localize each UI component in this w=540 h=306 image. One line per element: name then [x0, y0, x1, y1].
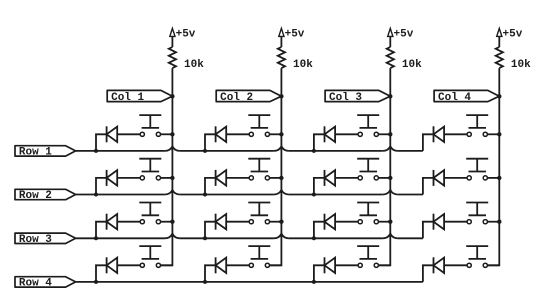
wire supply to resistor col 2 [280, 36, 282, 47]
pushbutton row2-col3 stem [367, 159, 369, 172]
pushbutton row2-col3 right contact [374, 176, 378, 180]
pushbutton row3-col4 cap [466, 202, 488, 204]
diode row3-col4 triangle [434, 214, 445, 229]
diode row2-col2 cathode bar [215, 170, 217, 186]
diode row4-col3 triangle [325, 258, 336, 273]
diode row4-col4 cathode bar [433, 257, 435, 273]
wire stub row2-col2 [205, 178, 216, 195]
pushbutton row2-col3 cap [357, 158, 379, 160]
diode row1-col1 cathode bar [106, 126, 108, 142]
wire diode to switch row3-col4 [444, 221, 467, 223]
wire switch to column row2-col2 [270, 177, 282, 179]
wire stub row4-col2 [205, 265, 216, 282]
wire stub row2-col3 [314, 178, 325, 195]
wire diode to switch row1-col4 [444, 133, 467, 135]
diode row1-col3 cathode bar [324, 126, 326, 142]
diode row3-col4 cathode bar [433, 214, 435, 230]
svg-text:10k: 10k [402, 59, 422, 71]
junction row1 stub col3 [312, 149, 316, 153]
net label flag Col 1 [107, 90, 172, 101]
row 2 wire [76, 194, 165, 196]
resistor 10k col 4 [496, 47, 503, 68]
pushbutton row1-col2 right contact [265, 132, 269, 136]
wire diode to switch row4-col4 [444, 264, 467, 266]
junction row2 switch col1 [170, 176, 174, 180]
pushbutton row4-col3 actuator bar [360, 258, 378, 260]
pushbutton row3-col3 actuator bar [360, 214, 378, 216]
junction col 2 flag [279, 94, 283, 98]
svg-text:Col 1: Col 1 [111, 92, 144, 104]
wire stub row1-col4 [423, 134, 434, 151]
diode row4-col1 triangle [107, 258, 118, 273]
pushbutton row1-col4 actuator bar [469, 127, 487, 129]
wire diode to switch row4-col3 [335, 264, 358, 266]
wire diode to switch row2-col1 [117, 177, 140, 179]
diode row3-col2 cathode bar [215, 214, 217, 230]
junction row1 stub col1 [94, 149, 98, 153]
pushbutton row3-col1 left contact [140, 220, 144, 224]
junction row3 switch col3 [388, 220, 392, 224]
svg-text:+5v: +5v [176, 29, 196, 41]
wire stub row2-col1 [96, 178, 107, 195]
pushbutton row4-col2 actuator bar [251, 258, 269, 260]
net label flag Row 4 [15, 277, 76, 287]
pushbutton row4-col3 cap [357, 245, 379, 247]
diode row3-col1 triangle [107, 214, 118, 229]
junction col 3 flag [388, 94, 392, 98]
resistor 10k col 2 [278, 47, 285, 68]
pushbutton row4-col3 right contact [374, 263, 378, 267]
wire diode to switch row2-col3 [335, 177, 358, 179]
diode row1-col3 triangle [325, 127, 336, 142]
pushbutton row3-col4 stem [476, 203, 478, 216]
junction col 4 flag [497, 94, 501, 98]
junction row3 switch col2 [279, 220, 283, 224]
pushbutton row4-col3 left contact [358, 263, 362, 267]
pushbutton row1-col2 left contact [249, 132, 253, 136]
junction row1 stub col2 [203, 149, 207, 153]
wire stub row1-col2 [205, 134, 216, 151]
svg-text:Col 3: Col 3 [329, 92, 362, 104]
pushbutton row2-col4 stem [476, 159, 478, 172]
column wire col 4 [487, 68, 499, 265]
wire switch to column row2-col3 [378, 177, 390, 179]
wire supply to resistor col 1 [171, 36, 173, 47]
wire switch to column row4-col1 [161, 264, 173, 266]
diode row1-col2 cathode bar [215, 126, 217, 142]
row 1 wire [76, 150, 165, 152]
wire hop row 2 over col 1 [165, 190, 180, 195]
pushbutton row2-col1 stem [149, 159, 151, 172]
diode row4-col2 cathode bar [215, 257, 217, 273]
pushbutton row4-col2 cap [248, 245, 270, 247]
diode row2-col4 cathode bar [433, 170, 435, 186]
pushbutton row2-col1 right contact [156, 176, 160, 180]
diode row2-col4 triangle [434, 170, 445, 185]
pushbutton row3-col3 stem [367, 203, 369, 216]
junction row3 stub col1 [94, 236, 98, 240]
pushbutton row4-col4 right contact [483, 263, 487, 267]
junction row1 switch col3 [388, 132, 392, 136]
wire switch to column row3-col3 [378, 221, 390, 223]
diode row2-col3 triangle [325, 170, 336, 185]
diode row4-col4 triangle [434, 258, 445, 273]
pushbutton row2-col3 left contact [358, 176, 362, 180]
pushbutton row1-col3 actuator bar [360, 127, 378, 129]
row 3 wire [76, 237, 165, 239]
wire hop row 1 over col 3 [383, 146, 398, 151]
pushbutton row4-col4 cap [466, 245, 488, 247]
wire diode to switch row2-col4 [444, 177, 467, 179]
wire stub row3-col1 [96, 222, 107, 239]
pushbutton row1-col1 actuator bar [142, 127, 160, 129]
wire diode to switch row2-col2 [226, 177, 249, 179]
pushbutton row2-col3 actuator bar [360, 171, 378, 173]
junction row4 stub col1 [94, 280, 98, 284]
pushbutton row4-col2 stem [258, 246, 260, 259]
pushbutton row4-col1 stem [149, 246, 151, 259]
wire diode to switch row1-col3 [335, 133, 358, 135]
wire switch to column row4-col2 [270, 264, 282, 266]
wire stub row1-col1 [96, 134, 107, 151]
+5V supply symbol col 4 [497, 28, 502, 36]
wire diode to switch row1-col1 [117, 133, 140, 135]
net label flag Row 3 [15, 233, 76, 243]
pushbutton row2-col4 actuator bar [469, 171, 487, 173]
pushbutton row4-col4 stem [476, 246, 478, 259]
pushbutton row3-col2 actuator bar [251, 214, 269, 216]
wire stub row4-col3 [314, 265, 325, 282]
pushbutton row1-col4 right contact [483, 132, 487, 136]
svg-text:Row 1: Row 1 [19, 147, 52, 159]
wire diode to switch row3-col1 [117, 221, 140, 223]
column wire col 1 [161, 68, 173, 265]
wire switch to column row1-col4 [487, 133, 499, 135]
wire switch to column row1-col2 [270, 133, 282, 135]
svg-text:Col 4: Col 4 [438, 92, 471, 104]
diode row2-col3 cathode bar [324, 170, 326, 186]
pushbutton row1-col4 left contact [467, 132, 471, 136]
pushbutton row4-col1 right contact [156, 263, 160, 267]
wire stub row3-col3 [314, 222, 325, 239]
junction row2 switch col4 [497, 176, 501, 180]
pushbutton row3-col2 left contact [249, 220, 253, 224]
junction row4 stub col2 [203, 280, 207, 284]
junction row3 switch col4 [497, 220, 501, 224]
svg-text:Row 4: Row 4 [19, 278, 52, 290]
wire stub row3-col4 [423, 222, 434, 239]
wire switch to column row2-col1 [161, 177, 173, 179]
+5V supply symbol col 3 [388, 28, 393, 36]
wire diode to switch row4-col2 [226, 264, 249, 266]
diode row1-col4 triangle [434, 127, 445, 142]
svg-text:+5v: +5v [285, 29, 305, 41]
pushbutton row2-col1 cap [139, 158, 161, 160]
wire switch to column row3-col1 [161, 221, 173, 223]
wire stub row1-col3 [314, 134, 325, 151]
diode row4-col2 triangle [216, 258, 227, 273]
pushbutton row1-col2 stem [258, 115, 260, 128]
junction row3 stub col2 [203, 236, 207, 240]
net label flag Col 2 [216, 90, 281, 101]
pushbutton row2-col4 cap [466, 158, 488, 160]
pushbutton row1-col4 stem [476, 115, 478, 128]
pushbutton row3-col2 cap [248, 202, 270, 204]
wire switch to column row3-col4 [487, 221, 499, 223]
wire hop row 2 over col 2 [274, 190, 289, 195]
pushbutton row3-col1 actuator bar [142, 214, 160, 216]
wire hop row 3 over col 1 [165, 234, 180, 239]
column wire col 3 [378, 68, 390, 265]
junction row2 stub col3 [312, 193, 316, 197]
junction row4 stub col3 [312, 280, 316, 284]
wire stub row3-col2 [205, 222, 216, 239]
pushbutton row2-col2 stem [258, 159, 260, 172]
net label flag Col 4 [434, 90, 499, 101]
pushbutton row4-col4 left contact [467, 263, 471, 267]
pushbutton row3-col4 left contact [467, 220, 471, 224]
wire switch to column row4-col3 [378, 264, 390, 266]
svg-text:Col 2: Col 2 [220, 92, 253, 104]
junction row2 switch col2 [279, 176, 283, 180]
wire hop row 1 over col 1 [165, 146, 180, 151]
svg-text:Row 2: Row 2 [19, 190, 52, 202]
pushbutton row1-col1 left contact [140, 132, 144, 136]
junction row1 switch col2 [279, 132, 283, 136]
svg-text:10k: 10k [511, 59, 531, 71]
diode row3-col3 cathode bar [324, 214, 326, 230]
pushbutton row1-col1 cap [139, 114, 161, 116]
pushbutton row4-col2 left contact [249, 263, 253, 267]
pushbutton row1-col1 right contact [156, 132, 160, 136]
diode row3-col3 triangle [325, 214, 336, 229]
pushbutton row4-col3 stem [367, 246, 369, 259]
junction row2 switch col3 [388, 176, 392, 180]
wire hop row 3 over col 3 [383, 234, 398, 239]
pushbutton row3-col3 right contact [374, 220, 378, 224]
net label flag Row 2 [15, 189, 76, 199]
diode row2-col2 triangle [216, 170, 227, 185]
diode row2-col1 cathode bar [106, 170, 108, 186]
junction row1 switch col4 [497, 132, 501, 136]
pushbutton row3-col4 right contact [483, 220, 487, 224]
junction row3 stub col3 [312, 236, 316, 240]
pushbutton row1-col4 cap [466, 114, 488, 116]
pushbutton row2-col2 left contact [249, 176, 253, 180]
wire supply to resistor col 3 [389, 36, 391, 47]
wire supply to resistor col 4 [498, 36, 500, 47]
wire diode to switch row3-col2 [226, 221, 249, 223]
pushbutton row3-col3 left contact [358, 220, 362, 224]
pushbutton row1-col3 stem [367, 115, 369, 128]
net label flag Col 3 [325, 90, 390, 101]
junction row2 stub col2 [203, 193, 207, 197]
wire diode to switch row4-col1 [117, 264, 140, 266]
diode row4-col3 cathode bar [324, 257, 326, 273]
wire switch to column row1-col1 [161, 133, 173, 135]
svg-text:10k: 10k [184, 59, 204, 71]
pushbutton row1-col2 actuator bar [251, 127, 269, 129]
net label flag Row 1 [15, 146, 76, 156]
column wire col 2 [270, 68, 282, 265]
row 4 wire [76, 281, 423, 283]
diode row4-col1 cathode bar [106, 257, 108, 273]
wire switch to column row1-col3 [378, 133, 390, 135]
+5V supply symbol col 1 [170, 28, 175, 36]
wire diode to switch row3-col3 [335, 221, 358, 223]
wire switch to column row2-col4 [487, 177, 499, 179]
pushbutton row2-col2 actuator bar [251, 171, 269, 173]
pushbutton row3-col1 stem [149, 203, 151, 216]
pushbutton row3-col1 cap [139, 202, 161, 204]
pushbutton row2-col4 right contact [483, 176, 487, 180]
wire hop row 3 over col 2 [274, 234, 289, 239]
pushbutton row2-col4 left contact [467, 176, 471, 180]
junction row1 switch col1 [170, 132, 174, 136]
pushbutton row3-col2 stem [258, 203, 260, 216]
pushbutton row2-col2 cap [248, 158, 270, 160]
wire switch to column row4-col4 [487, 264, 499, 266]
diode row1-col1 triangle [107, 127, 118, 142]
pushbutton row4-col4 actuator bar [469, 258, 487, 260]
diode row3-col1 cathode bar [106, 214, 108, 230]
resistor 10k col 3 [387, 47, 394, 68]
pushbutton row1-col3 left contact [358, 132, 362, 136]
diode row1-col4 cathode bar [433, 126, 435, 142]
pushbutton row2-col1 left contact [140, 176, 144, 180]
svg-text:10k: 10k [293, 59, 313, 71]
wire hop row 1 over col 2 [274, 146, 289, 151]
wire hop row 2 over col 3 [383, 190, 398, 195]
pushbutton row4-col1 cap [139, 245, 161, 247]
wire stub row4-col1 [96, 265, 107, 282]
resistor 10k col 1 [169, 47, 176, 68]
junction row2 stub col1 [94, 193, 98, 197]
pushbutton row1-col3 cap [357, 114, 379, 116]
svg-text:+5v: +5v [503, 29, 523, 41]
pushbutton row2-col1 actuator bar [142, 171, 160, 173]
diode row3-col2 triangle [216, 214, 227, 229]
pushbutton row3-col2 right contact [265, 220, 269, 224]
svg-text:+5v: +5v [394, 29, 414, 41]
svg-text:Row 3: Row 3 [19, 234, 52, 246]
+5V supply symbol col 2 [279, 28, 284, 36]
pushbutton row3-col3 cap [357, 202, 379, 204]
junction row3 switch col1 [170, 220, 174, 224]
pushbutton row3-col4 actuator bar [469, 214, 487, 216]
diode row1-col2 triangle [216, 127, 227, 142]
wire diode to switch row1-col2 [226, 133, 249, 135]
wire switch to column row3-col2 [270, 221, 282, 223]
pushbutton row1-col3 right contact [374, 132, 378, 136]
pushbutton row1-col1 stem [149, 115, 151, 128]
wire stub row2-col4 [423, 178, 434, 195]
pushbutton row4-col2 right contact [265, 263, 269, 267]
junction col 1 flag [170, 94, 174, 98]
pushbutton row2-col2 right contact [265, 176, 269, 180]
pushbutton row4-col1 left contact [140, 263, 144, 267]
diode row2-col1 triangle [107, 170, 118, 185]
pushbutton row4-col1 actuator bar [142, 258, 160, 260]
pushbutton row1-col2 cap [248, 114, 270, 116]
wire stub row4-col4 [423, 265, 434, 282]
pushbutton row3-col1 right contact [156, 220, 160, 224]
